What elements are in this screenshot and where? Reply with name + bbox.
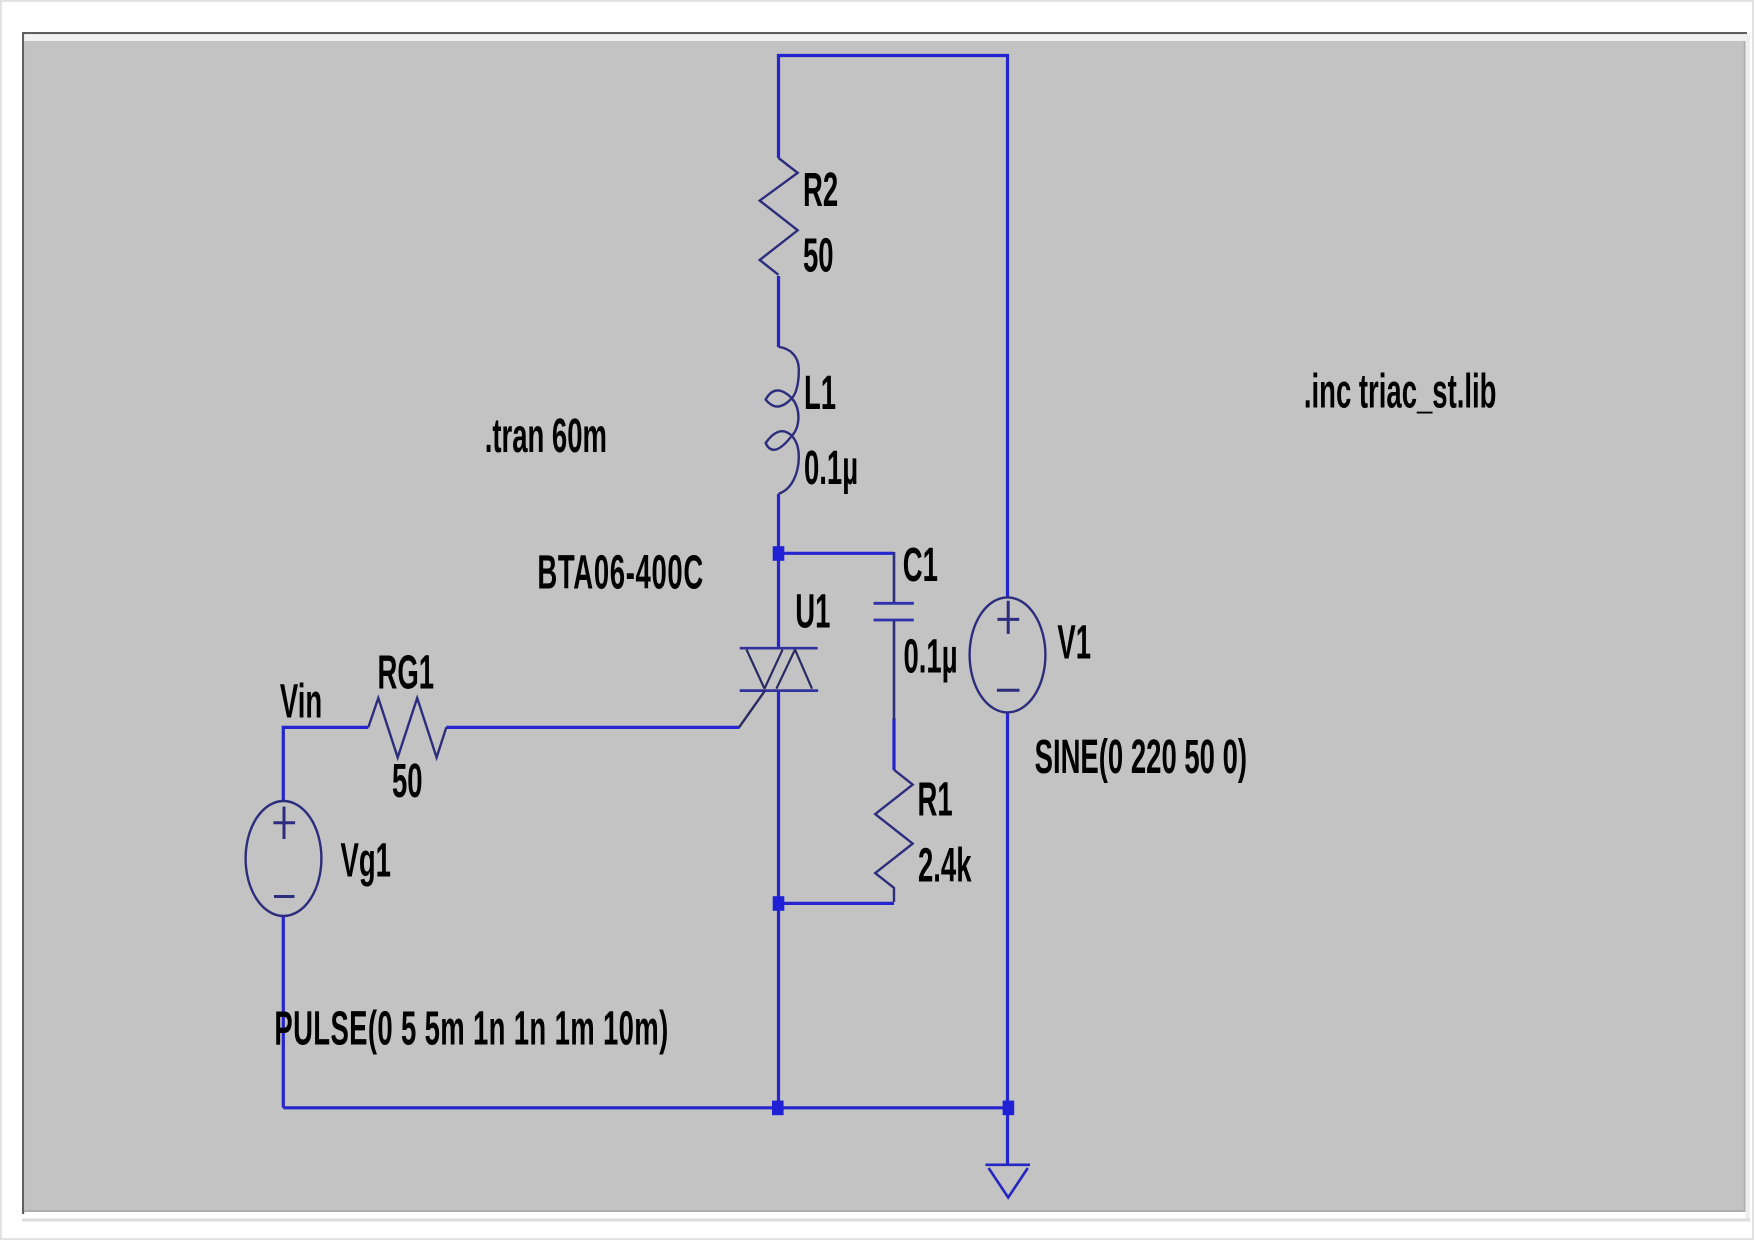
resistor RG1 bbox=[368, 698, 446, 758]
right light column bbox=[1746, 34, 1750, 1220]
wire R1 bottom to node B bbox=[779, 902, 895, 905]
svg-text:Vin: Vin bbox=[280, 676, 322, 729]
svg-text:C1: C1 bbox=[903, 539, 938, 592]
junction bottom right bbox=[1003, 1101, 1015, 1116]
voltage source Vg1 bbox=[246, 801, 322, 916]
svg-text:50: 50 bbox=[803, 230, 834, 283]
wire R2 bottom lead to L1 bbox=[777, 276, 780, 347]
resistor R1 bbox=[875, 770, 913, 902]
svg-text:SINE(0 220 50 0): SINE(0 220 50 0) bbox=[1035, 731, 1247, 784]
svg-text:R2: R2 bbox=[803, 164, 838, 217]
svg-text:0.1µ: 0.1µ bbox=[904, 631, 958, 684]
wire RG1 to triac gate bbox=[446, 726, 739, 729]
svg-text:50: 50 bbox=[392, 755, 423, 808]
inductor L1 bbox=[766, 347, 799, 494]
canvas bottom darker edge bbox=[24, 1210, 1745, 1212]
wire C1 bottom to R1 top bbox=[892, 718, 895, 770]
wire bottom rail bbox=[283, 1106, 1007, 1109]
window frame dark left line bbox=[22, 32, 24, 1214]
svg-text:.inc triac_st.lib: .inc triac_st.lib bbox=[1304, 366, 1497, 419]
ground bbox=[985, 1165, 1030, 1198]
wire node A to C1 top bbox=[779, 552, 895, 555]
wire V1 bottom to ground bbox=[1006, 712, 1009, 1164]
svg-text:0.1µ: 0.1µ bbox=[804, 442, 858, 495]
wire R2 top lead bbox=[777, 56, 780, 159]
wire top rail and right rail to V1 bbox=[779, 56, 1008, 598]
junction node A bbox=[773, 546, 785, 561]
canvas right darker edge bbox=[1744, 41, 1746, 1212]
svg-text:L1: L1 bbox=[804, 367, 836, 420]
svg-text:PULSE(0 5 5m 1n 1n 1m 10m): PULSE(0 5 5m 1n 1n 1m 10m) bbox=[274, 1003, 668, 1056]
voltage source V1 bbox=[970, 597, 1046, 712]
svg-text:BTA06-400C: BTA06-400C bbox=[537, 547, 703, 600]
light strip top bbox=[24, 34, 1745, 41]
window frame dark top line bbox=[22, 32, 1747, 34]
svg-text:R1: R1 bbox=[918, 774, 953, 827]
triac U1 bbox=[740, 647, 818, 650]
wire triac MT2 lead bbox=[777, 553, 780, 648]
wire Vin corner to RG1 bbox=[283, 727, 368, 801]
wire Vg1 bottom to bottom rail bbox=[282, 916, 285, 1108]
junction node B bbox=[773, 896, 785, 911]
svg-text:.tran 60m: .tran 60m bbox=[485, 410, 607, 463]
junction bottom left bbox=[772, 1101, 784, 1116]
wire L1 bottom lead to node A bbox=[777, 494, 780, 553]
bottom bevel line bbox=[22, 1219, 1750, 1222]
capacitor C1 bbox=[893, 552, 896, 602]
resistor R2 bbox=[760, 158, 798, 275]
wire triac MT1 lead down to bottom rail bbox=[777, 691, 780, 1108]
svg-text:Vg1: Vg1 bbox=[341, 835, 391, 888]
svg-text:U1: U1 bbox=[795, 586, 830, 639]
svg-text:V1: V1 bbox=[1057, 617, 1091, 670]
svg-text:RG1: RG1 bbox=[378, 647, 435, 700]
svg-text:2.4k: 2.4k bbox=[918, 840, 972, 893]
